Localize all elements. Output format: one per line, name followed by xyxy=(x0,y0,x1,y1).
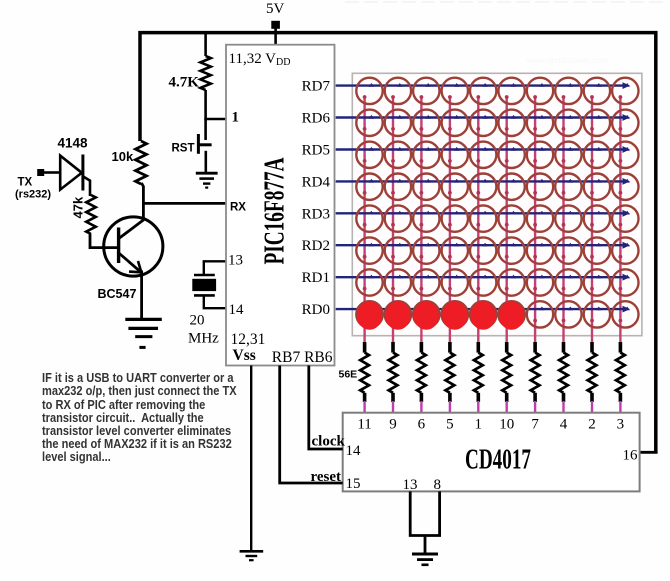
svg-text:PIC16F877A: PIC16F877A xyxy=(259,157,290,265)
wire row RD0 cathode line xyxy=(336,306,630,313)
node junction dots xyxy=(369,83,630,310)
LED row6 col2 xyxy=(385,237,411,263)
LED row1 col8 xyxy=(555,78,581,104)
LED row1 col3 xyxy=(413,78,439,104)
LED row7 col10 xyxy=(612,269,638,295)
wire 47k to base xyxy=(90,234,117,248)
wire column 7 anode line xyxy=(534,97,536,343)
LED row7 col5 xyxy=(470,269,496,295)
LED row4 col5 xyxy=(470,174,496,200)
wire column 4 anode line xyxy=(449,97,451,343)
IC U2 CD4017 xyxy=(343,413,640,492)
svg-text:13: 13 xyxy=(403,477,418,493)
wire row RD6 cathode line xyxy=(336,114,630,121)
LED row2 col7 xyxy=(527,110,553,136)
op-amp U1 PIC16F877A microcontroller xyxy=(226,45,335,366)
LED row3 col3 xyxy=(413,142,439,168)
wire 5V top rail xyxy=(140,33,656,453)
LED row8 col8 xyxy=(555,301,581,327)
resistor 56E column 8 xyxy=(559,342,568,413)
LED row7 col2 xyxy=(385,269,411,295)
wire pin 1 of PIC xyxy=(204,118,226,121)
svg-text:7: 7 xyxy=(531,417,539,433)
LED row5 col9 xyxy=(584,205,610,231)
LED row6 col10 xyxy=(612,237,638,263)
LED row4 col8 xyxy=(555,174,581,200)
LED row6 col3 xyxy=(413,237,439,263)
LED row5 col1 xyxy=(356,205,382,231)
resistor 56E column 6 xyxy=(502,342,511,413)
crystal X1 20 MHz xyxy=(193,275,216,295)
LED row8 col5 xyxy=(470,301,496,327)
svg-text:4: 4 xyxy=(560,417,568,433)
svg-text:(rs232): (rs232) xyxy=(15,189,51,201)
LED row7 col9 xyxy=(584,269,610,295)
svg-text:47k: 47k xyxy=(71,196,86,218)
ground emitter xyxy=(125,319,162,347)
svg-text:MHz: MHz xyxy=(188,331,219,347)
LED row2 col9 xyxy=(584,110,610,136)
resistor 56E column 1 xyxy=(360,342,369,413)
svg-text:5V: 5V xyxy=(266,1,285,17)
LED row4 col7 xyxy=(527,174,553,200)
svg-text:9: 9 xyxy=(389,417,397,433)
LED row3 col1 xyxy=(356,142,382,168)
svg-text:4148: 4148 xyxy=(58,135,89,150)
svg-text:12,31: 12,31 xyxy=(231,331,266,348)
wire crystal to PIC pin14 xyxy=(204,295,226,308)
svg-text:RD4: RD4 xyxy=(302,174,331,190)
wire CD4017 pin16 to 5V rail xyxy=(640,451,658,454)
resistor 56E column 3 xyxy=(417,342,426,413)
LED row5 col2 xyxy=(385,205,411,231)
LED row2 col8 xyxy=(555,110,581,136)
LED row1 col9 xyxy=(584,78,610,104)
LED row3 col2 xyxy=(385,142,411,168)
wire TX to diode xyxy=(44,171,60,174)
wire 4.7K to pin1 junction xyxy=(204,90,207,140)
svg-text:10: 10 xyxy=(499,417,514,433)
svg-text:RD0: RD0 xyxy=(302,302,330,318)
LED row2 col3 xyxy=(413,110,439,136)
wire row RD1 cathode line xyxy=(336,274,630,281)
wire emitter to ground xyxy=(140,271,143,320)
wire PIC pin13 to crystal xyxy=(204,261,226,275)
LED row3 col5 xyxy=(470,142,496,168)
wire column 2 anode line xyxy=(392,97,394,343)
LED row7 col8 xyxy=(555,269,581,295)
wire row RD3 cathode line xyxy=(336,210,630,217)
svg-text:1: 1 xyxy=(232,110,240,126)
LED row5 col10 xyxy=(612,205,638,231)
svg-text:11: 11 xyxy=(357,417,371,433)
wire CD4017 pins 13,8 to ground xyxy=(410,491,439,535)
LED row7 col7 xyxy=(527,269,553,295)
LED row3 col9 xyxy=(584,142,610,168)
svg-text:RD3: RD3 xyxy=(302,206,330,222)
LED row7 col6 xyxy=(498,269,524,295)
LED row2 col2 xyxy=(385,110,411,136)
LED row6 col6 xyxy=(498,237,524,263)
LED row8 col9 xyxy=(584,301,610,327)
LED row6 col9 xyxy=(584,237,610,263)
LED row4 col6 xyxy=(498,174,524,200)
svg-text:RB7 RB6: RB7 RB6 xyxy=(272,349,333,366)
LED row6 col7 xyxy=(527,237,553,263)
LED row5 col7 xyxy=(527,205,553,231)
LED row8 col2 xyxy=(385,301,411,327)
resistor 10k xyxy=(136,141,147,184)
LED row8 col1 xyxy=(356,301,382,327)
transistor Q1 BC547 xyxy=(104,217,163,276)
LED row6 col5 xyxy=(470,237,496,263)
LED row1 col1 xyxy=(356,78,382,104)
svg-text:BC547: BC547 xyxy=(98,287,137,301)
svg-text:RD7: RD7 xyxy=(302,79,331,95)
wire column 10 anode line xyxy=(619,97,621,343)
svg-text:2: 2 xyxy=(588,417,596,433)
switch RST push button xyxy=(198,134,211,154)
LED row1 col4 xyxy=(442,78,468,104)
wire 5V stem to PIC Vdd xyxy=(274,29,277,46)
LED row4 col9 xyxy=(584,174,610,200)
LED lit row8 col5 xyxy=(471,302,496,330)
svg-text:CD4017: CD4017 xyxy=(465,444,531,476)
LED row8 col3 xyxy=(413,301,439,327)
LED row7 col1 xyxy=(356,269,382,295)
wire row RD2 cathode line xyxy=(336,242,630,249)
resistor 56E column 2 xyxy=(389,342,398,413)
resistor 56E column 9 xyxy=(588,342,597,413)
svg-text:reset: reset xyxy=(311,469,342,485)
LED row4 col1 xyxy=(356,174,382,200)
LED row4 col4 xyxy=(442,174,468,200)
LED row4 col10 xyxy=(612,174,638,200)
resistor 4.7K xyxy=(200,56,210,90)
LED row3 col6 xyxy=(498,142,524,168)
LED row3 col10 xyxy=(612,142,638,168)
wire column 3 anode line xyxy=(420,97,422,343)
wire RB7 to reset pin15 xyxy=(280,366,343,484)
LED row8 col4 xyxy=(442,301,468,327)
LED row1 col2 xyxy=(385,78,411,104)
LED row5 col6 xyxy=(498,205,524,231)
LED lit row8 col6 xyxy=(499,302,524,330)
LED row6 col1 xyxy=(356,237,382,263)
LED row3 col8 xyxy=(555,142,581,168)
svg-text:4.7K: 4.7K xyxy=(169,74,200,90)
LED row1 col6 xyxy=(498,78,524,104)
LED row5 col5 xyxy=(470,205,496,231)
LED row3 col4 xyxy=(442,142,468,168)
LED row6 col8 xyxy=(555,237,581,263)
wire RB6 to clock pin14 xyxy=(309,366,343,450)
svg-text:TX: TX xyxy=(18,177,33,189)
resistor 47k xyxy=(86,195,96,234)
ground CD4017 xyxy=(412,554,438,565)
LED row6 col4 xyxy=(442,237,468,263)
LED row5 col3 xyxy=(413,205,439,231)
LED row1 col7 xyxy=(527,78,553,104)
svg-text:clock: clock xyxy=(312,434,346,450)
resistor 56E column 4 xyxy=(446,342,455,413)
svg-text:20: 20 xyxy=(190,313,205,329)
LED row2 col4 xyxy=(442,110,468,136)
ground RST xyxy=(196,173,218,187)
wire column 5 anode line xyxy=(477,97,479,343)
svg-text:16: 16 xyxy=(623,448,639,464)
LED lit row8 col2 xyxy=(385,302,410,330)
LED row8 col6 xyxy=(498,301,524,327)
LED lit row8 col1 xyxy=(357,302,382,330)
resistor 56E column 5 xyxy=(474,342,483,413)
svg-text:15: 15 xyxy=(346,476,361,492)
note text xyxy=(42,371,272,463)
resistor 56E column 7 xyxy=(531,342,540,413)
LED row7 col4 xyxy=(442,269,468,295)
svg-text:3: 3 xyxy=(617,417,625,433)
wire RST to ground xyxy=(205,151,208,172)
wire column 9 anode line xyxy=(591,97,593,343)
svg-text:56E: 56E xyxy=(339,369,358,381)
wire diode to 47k xyxy=(83,176,90,196)
LED row2 col5 xyxy=(470,110,496,136)
LED row8 col7 xyxy=(527,301,553,327)
LED row7 col3 xyxy=(413,269,439,295)
wire 4.7K branch xyxy=(204,33,207,57)
wire Vss to ground xyxy=(250,366,252,551)
svg-text:8: 8 xyxy=(434,477,442,493)
LED row8 col10 xyxy=(612,301,638,327)
svg-text:RD2: RD2 xyxy=(302,238,330,254)
LED row3 col7 xyxy=(527,142,553,168)
svg-text:14: 14 xyxy=(229,302,245,318)
svg-text:14: 14 xyxy=(346,443,362,459)
svg-text:RD1: RD1 xyxy=(302,270,330,286)
svg-text:13: 13 xyxy=(228,253,243,269)
ground Vss xyxy=(240,551,264,560)
wire RX line to PIC xyxy=(143,202,226,205)
svg-text:1: 1 xyxy=(475,417,483,433)
svg-text:RX: RX xyxy=(230,202,246,214)
LED row4 col3 xyxy=(413,174,439,200)
svg-text:RD5: RD5 xyxy=(302,143,330,159)
LED row1 col10 xyxy=(612,78,638,104)
LED row2 col6 xyxy=(498,110,524,136)
LED row4 col2 xyxy=(385,174,411,200)
LED lit row8 col4 xyxy=(442,302,467,330)
LED row5 col8 xyxy=(555,205,581,231)
LED row2 col10 xyxy=(612,110,638,136)
svg-text:Vss: Vss xyxy=(233,347,256,364)
LED matrix board xyxy=(352,73,642,335)
svg-text:6: 6 xyxy=(418,417,426,433)
LED lit row8 col3 xyxy=(414,302,439,330)
LED row5 col4 xyxy=(442,205,468,231)
svg-text:5: 5 xyxy=(446,417,454,433)
wire row RD4 cathode line xyxy=(336,178,630,185)
wire 10k to collector node xyxy=(142,183,144,220)
node TX (rs232) input xyxy=(37,169,44,176)
LED row2 col1 xyxy=(356,110,382,136)
wire column 8 anode line xyxy=(562,97,564,343)
svg-text:www.circuitstoday.com: www.circuitstoday.com xyxy=(526,56,608,65)
wire column 1 anode line xyxy=(363,97,365,343)
LED row1 col5 xyxy=(470,78,496,104)
wire row RD7 cathode line xyxy=(336,82,630,89)
wire row RD5 cathode line xyxy=(336,146,630,153)
svg-text:RST: RST xyxy=(172,143,195,155)
svg-text:RD6: RD6 xyxy=(302,111,331,127)
svg-text:10k: 10k xyxy=(112,149,134,164)
resistor 56E column 10 xyxy=(616,342,625,413)
wire column 6 anode line xyxy=(506,97,508,343)
